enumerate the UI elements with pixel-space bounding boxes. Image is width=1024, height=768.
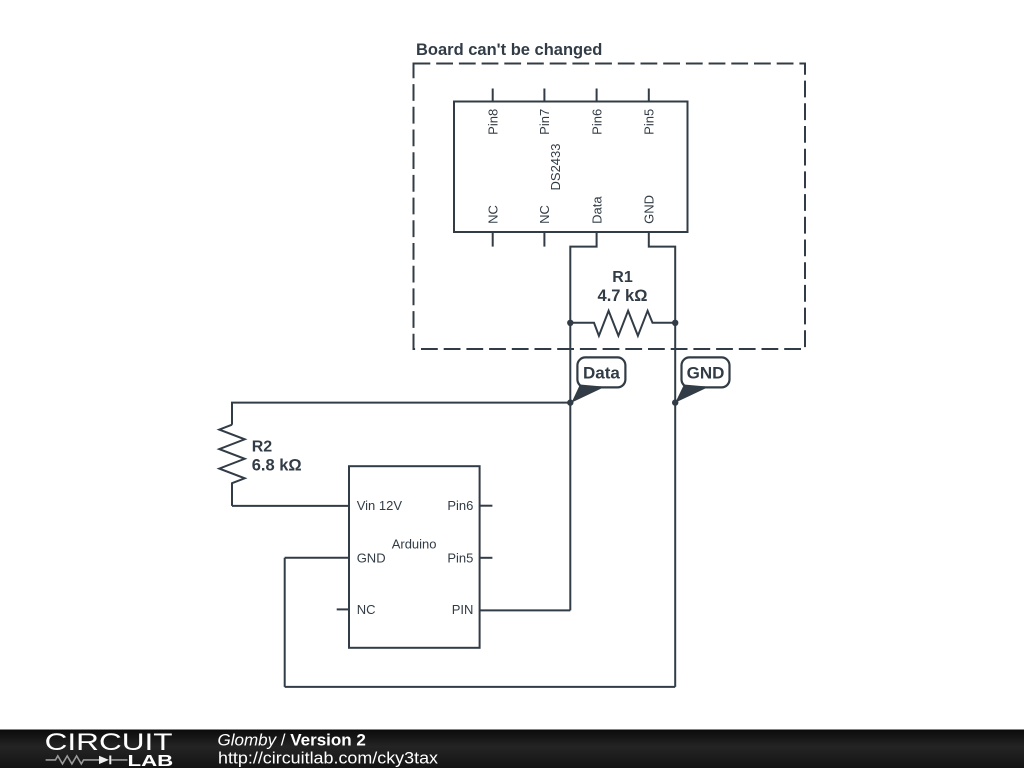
pin stub NC (Arduino left) [337,608,349,610]
svg-text:LAB: LAB [128,753,174,768]
svg-text:Pin7: Pin7 [537,109,552,135]
wire: data net vertical down to Arduino PIN level [569,403,571,611]
svg-text:Pin6: Pin6 [447,498,473,513]
pin stub Pin7 [543,89,545,102]
svg-text:NC: NC [486,205,501,224]
wire: horizontal from data net to Arduino PIN [480,609,571,611]
resistor R2 [219,425,244,506]
svg-text:Vin 12V: Vin 12V [357,498,403,513]
wire: R2 bottom to Arduino Vin pin [232,505,349,507]
svg-text:GND: GND [357,550,386,565]
IC U2 Arduino body [349,466,480,648]
pin stub NC (bottom left 1) [492,232,494,247]
pin stub Pin6 (Arduino right) [480,505,493,507]
svg-text:DS2433: DS2433 [548,144,563,191]
flag Data [572,357,626,402]
pin stub Pin6 [596,89,598,102]
pin stub Pin8 [492,89,494,102]
wire: ground net vertical down to bottom rail [674,403,676,687]
CircuitLab logo: diode cathode bar [109,756,111,765]
pin stub Pin5 [648,89,650,102]
svg-text:http://circuitlab.com/cky3tax: http://circuitlab.com/cky3tax [218,749,439,768]
pin stub Pin5 (Arduino right) [480,557,493,559]
svg-text:Pin5: Pin5 [447,550,473,565]
wire: bottom ground rail [285,686,676,688]
wire: data net vertical through R1 left node down to flag anchor [569,323,571,403]
svg-text:Glomby / Version 2: Glomby / Version 2 [218,731,366,750]
svg-text:Arduino: Arduino [392,537,437,552]
wire: horizontal from data node left to R2 top [232,403,570,425]
junction dot: R1 right node [672,320,678,326]
IC U1 DS2433 body [454,102,688,233]
wire: DS2433 GND pin down-right to vertical ground net [649,232,675,323]
svg-text:GND: GND [642,195,657,224]
junction dot: GND flag anchor [672,399,678,405]
svg-text:Board can't be changed: Board can't be changed [416,41,602,59]
svg-text:Data: Data [583,364,620,383]
svg-text:CIRCUIT: CIRCUIT [45,729,173,756]
CircuitLab logo: lead into LAB [111,759,127,761]
junction dot: Data flag anchor [567,399,573,405]
svg-text:GND: GND [687,364,725,383]
pin stub NC (bottom left 2) [543,232,545,247]
wire: ground net vertical through R1 right node down to flag anchor [674,323,676,403]
svg-text:R1: R1 [612,269,633,286]
svg-text:6.8 kΩ: 6.8 kΩ [252,457,302,475]
wire: DS2433 Data pin down-left to vertical data net [570,232,596,323]
dashed board boundary rectangle [414,64,806,350]
wire: ground rail up to Arduino GND level [284,558,286,687]
CircuitLab logo: resistor squiggle [46,756,99,764]
resistor R1 [570,311,675,336]
junction dot: R1 left node [567,320,573,326]
svg-text:4.7 kΩ: 4.7 kΩ [598,287,648,305]
svg-text:Pin8: Pin8 [486,109,501,135]
svg-text:NC: NC [357,602,376,617]
svg-text:R2: R2 [252,439,273,456]
svg-text:Pin5: Pin5 [642,109,657,135]
CircuitLab logo: diode triangle [99,756,109,764]
svg-text:Pin6: Pin6 [589,109,604,135]
flag GND [675,357,729,402]
svg-text:NC: NC [537,205,552,224]
wire: horizontal into Arduino GND pin [285,557,349,559]
svg-text:Data: Data [589,196,604,224]
svg-text:PIN: PIN [452,602,474,617]
